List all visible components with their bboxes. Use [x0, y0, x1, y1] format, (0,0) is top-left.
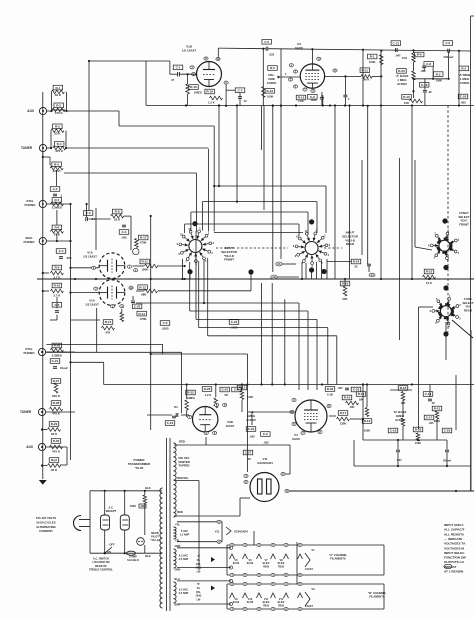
svg-text:C-24: C-24 — [221, 388, 228, 392]
svg-text:AUX: AUX — [27, 109, 35, 113]
svg-text:R-24: R-24 — [353, 260, 360, 264]
wire plate V3 — [325, 75, 361, 77]
svg-text:120K: 120K — [340, 422, 347, 426]
svg-text:A.C. SWITCH: A.C. SWITCH — [93, 557, 109, 561]
svg-text:V1: V1 — [311, 548, 315, 552]
svg-text:BAL: BAL — [196, 563, 201, 566]
wire y290 — [158, 290, 251, 292]
svg-text:C-20: C-20 — [353, 388, 360, 392]
wire main bus y279 — [37, 278, 474, 280]
capacitor C16 .02 — [423, 392, 433, 397]
resistor R10 10K — [402, 95, 412, 100]
resistor R11 160K — [360, 68, 370, 73]
pin 9 V1B — [204, 57, 208, 60]
svg-text:R-16: R-16 — [358, 392, 365, 396]
pin 12 V1B — [216, 57, 220, 60]
svg-text:TREBLE CONTROL: TREBLE CONTROL — [89, 568, 113, 572]
svg-text:220 K: 220 K — [53, 169, 62, 173]
wire right edge bus — [471, 15, 474, 17]
wire below front 4 — [203, 260, 205, 303]
svg-text:7B05: 7B05 — [263, 604, 270, 607]
svg-text:100K: 100K — [141, 268, 148, 272]
svg-text:LOCATED ON: LOCATED ON — [93, 560, 110, 564]
svg-text:R-28: R-28 — [53, 401, 60, 405]
AC receptacle 1 — [101, 515, 110, 530]
svg-text:10: 10 — [244, 99, 248, 103]
wire fil feed 2 — [177, 541, 222, 543]
svg-text:.002: .002 — [460, 101, 466, 105]
svg-text:R-19: R-19 — [206, 90, 213, 94]
wire front wiper left — [157, 265, 185, 267]
capacitor C24 — [220, 387, 230, 392]
AC plug — [74, 516, 82, 531]
jack TUNER (A) — [39, 144, 46, 151]
pot R20 A-BASS pot — [397, 69, 407, 74]
svg-text:C-2: C-2 — [53, 187, 58, 191]
pin 12 V2B — [213, 431, 217, 434]
svg-text:2.5 AMP: 2.5 AMP — [179, 558, 189, 561]
svg-text:R-23: R-23 — [426, 270, 433, 274]
svg-text:7B05: 7B05 — [263, 565, 270, 568]
capacitor C6 200uuf — [443, 41, 453, 46]
svg-text:TUNER: TUNER — [20, 410, 32, 414]
capacitor rear — [367, 263, 371, 265]
rotary switch INPUT SELECTOR FRONT — [189, 240, 202, 253]
svg-text:PHONO: PHONO — [23, 351, 35, 355]
svg-text:R-29: R-29 — [51, 422, 58, 426]
resistor R14 470K — [137, 311, 147, 316]
svg-text:FIL: FIL — [197, 588, 201, 590]
resistor R29 33K — [49, 422, 59, 427]
wire top bus — [218, 47, 265, 50]
pin b V4 — [290, 410, 294, 413]
pot A-TREB 1MEG AUDIO — [459, 66, 469, 71]
svg-text:100K: 100K — [436, 78, 442, 82]
svg-text:R-28: R-28 — [204, 387, 211, 391]
resistor R32 5.1K — [325, 387, 335, 392]
tube V1B 1/2 12AX7 — [197, 62, 222, 87]
wire red bottom — [174, 515, 240, 517]
wire drop x219 — [218, 106, 220, 187]
jack AUX (B) — [38, 443, 45, 450]
resistor R16 1MEG — [189, 85, 199, 90]
capacitor C17 .005 — [424, 415, 434, 420]
svg-text:15 K: 15 K — [426, 281, 432, 285]
svg-text:470 K: 470 K — [52, 412, 61, 416]
wire funct rear drop — [445, 322, 447, 360]
svg-text:470 K: 470 K — [55, 111, 64, 115]
wire xtalB right — [46, 351, 181, 353]
svg-text:AUDIO: AUDIO — [267, 81, 277, 85]
svg-text:R-3: R-3 — [55, 125, 60, 129]
capacitor C3 .01 — [83, 211, 93, 216]
resistor R30 470K — [51, 439, 61, 444]
svg-text:.005: .005 — [337, 386, 343, 390]
svg-text:R-4: R-4 — [57, 142, 62, 146]
resistor R10a 2.7K — [52, 283, 62, 288]
svg-text:RED: RED — [177, 510, 183, 514]
wire stair B4 — [199, 327, 328, 329]
transformer primary — [160, 488, 163, 608]
svg-text:R-20: R-20 — [415, 428, 422, 432]
svg-text:ALL CAPACIT: ALL CAPACIT — [444, 528, 464, 532]
resistor R23 15K — [424, 269, 434, 274]
svg-text:BAL: BAL — [196, 591, 201, 594]
wire drop x272 node — [272, 106, 274, 273]
svg-text:470K: 470K — [140, 317, 147, 321]
heater V11 — [226, 527, 231, 535]
svg-text:6AU6: 6AU6 — [247, 601, 254, 604]
resistor R16b 10K — [342, 395, 352, 400]
svg-text:VOLTAGES M: VOLTAGES M — [444, 546, 464, 550]
svg-text:.047: .047 — [396, 458, 402, 462]
resistor R12a 68K — [138, 285, 148, 290]
big dot rear bus — [321, 269, 326, 274]
wire drop x281 node — [280, 106, 282, 260]
wire stair 3 — [64, 172, 196, 174]
resistor R19b 100K — [362, 419, 372, 424]
pin 3 V1B — [190, 66, 194, 69]
resistor R21 100K — [433, 72, 443, 77]
transformer secondary 5V — [174, 527, 177, 539]
wire V3 loop left — [262, 49, 264, 106]
big dot rear top — [309, 219, 314, 224]
svg-text:FUNCTION SW: FUNCTION SW — [444, 556, 466, 560]
svg-text:R-30: R-30 — [53, 439, 60, 443]
wire drop x284 — [284, 299, 286, 384]
wire drop x237b — [236, 106, 238, 202]
wire bplus bus — [288, 490, 474, 492]
jack XTAL PHONO (A) — [39, 200, 46, 207]
wire drop x349 — [349, 106, 351, 280]
capacitor C18 .047 — [388, 428, 398, 433]
wire BLK bottom — [90, 552, 162, 554]
wire switch link y232 — [214, 232, 303, 234]
svg-text:100K: 100K — [364, 429, 371, 433]
svg-text:--- INDICATE: --- INDICATE — [444, 537, 462, 541]
jack MAG PHONO (A) — [39, 237, 46, 244]
wire drop x261 — [261, 106, 263, 151]
wire drop x362 — [361, 160, 363, 255]
rotary switch INPUT SELECTOR REAR — [305, 242, 318, 255]
svg-text:FRONT: FRONT — [459, 222, 469, 226]
svg-text:*54-90: *54-90 — [135, 466, 144, 470]
svg-text:GZ34/5AR4: GZ34/5AR4 — [234, 530, 248, 534]
wire stair C1 — [46, 343, 162, 345]
svg-text:C-6: C-6 — [445, 41, 450, 45]
svg-text:R-2: R-2 — [270, 66, 275, 70]
big dot rear bottom — [309, 267, 314, 272]
resistor R22 1MEG — [186, 390, 196, 395]
wire cathode bus V1B — [146, 105, 474, 107]
svg-text:2.7 K: 2.7 K — [54, 294, 61, 298]
wire plate V1B up — [217, 48, 219, 57]
wire V2B down — [205, 437, 207, 445]
svg-text:C-6: C-6 — [163, 321, 168, 325]
jack XTAL PHONO (B) — [38, 348, 45, 355]
svg-text:YEL: YEL — [175, 523, 180, 527]
svg-text:CURRENT: CURRENT — [39, 529, 53, 533]
pin 6 V1A — [92, 266, 96, 269]
svg-text:C-8: C-8 — [426, 62, 431, 66]
capacitor C5a — [52, 303, 62, 308]
svg-text:C-23: C-23 — [231, 320, 238, 324]
svg-text:INPUT SELEC: INPUT SELEC — [444, 551, 465, 555]
svg-text:2W: 2W — [141, 504, 145, 508]
wire tone B links — [363, 439, 447, 441]
pot level — [133, 248, 139, 254]
wire below rear 5 — [326, 259, 328, 279]
svg-text:FRONT: FRONT — [224, 258, 234, 262]
svg-text:1.2 K: 1.2 K — [205, 393, 212, 397]
big dot funct mid — [443, 285, 448, 290]
capacitor C8 .002 — [424, 62, 434, 67]
dash link switches — [216, 247, 288, 249]
wire below front 6 — [198, 261, 200, 328]
svg-text:2.5 AMP: 2.5 AMP — [179, 592, 189, 595]
svg-text:REAR: REAR — [346, 242, 355, 246]
resistor R7 2.2MEG — [52, 198, 62, 203]
svg-text:C-7: C-7 — [238, 88, 243, 92]
svg-text:AUDIO: AUDIO — [397, 82, 407, 86]
resistor R2 470K — [54, 103, 64, 108]
capacitor C4b .005 — [119, 230, 129, 235]
svg-text:.002: .002 — [420, 69, 426, 73]
svg-text:R-16: R-16 — [190, 85, 197, 89]
resistor R28 470K — [51, 401, 61, 406]
capacitor C5 .022 — [262, 40, 272, 45]
svg-text:R-11: R-11 — [142, 260, 149, 264]
svg-text:C-2: C-2 — [263, 432, 268, 436]
wire tone mid — [414, 78, 449, 80]
svg-text:7B05: 7B05 — [278, 604, 285, 607]
svg-text:470 K: 470 K — [55, 149, 64, 153]
resistor R19 1.2K — [205, 89, 215, 94]
capacitor C1 grid — [173, 65, 183, 70]
svg-text:5.6K: 5.6K — [298, 99, 304, 103]
svg-text:AUDIO: AUDIO — [460, 81, 470, 85]
neon pilot — [137, 538, 145, 546]
svg-text:GRN: GRN — [175, 568, 181, 572]
svg-text:100K: 100K — [369, 60, 375, 64]
svg-text:C-4: C-4 — [122, 230, 127, 234]
svg-text:C-19: C-19 — [421, 83, 428, 87]
svg-text:10uuf: 10uuf — [60, 366, 68, 370]
svg-text:R-32: R-32 — [327, 387, 334, 391]
svg-text:2 AMP: 2 AMP — [129, 555, 137, 559]
svg-text:C-20: C-20 — [460, 95, 467, 99]
svg-text:C-18: C-18 — [390, 429, 397, 433]
svg-text:C-16: C-16 — [167, 421, 174, 425]
svg-text:1MEG: 1MEG — [187, 396, 195, 400]
V2 heater — [305, 592, 310, 606]
node 2A — [276, 262, 282, 266]
wire red/yel — [174, 480, 199, 482]
transformer core — [166, 438, 168, 611]
svg-text:AT 1 READIN: AT 1 READIN — [444, 570, 464, 574]
svg-text:R-1: R-1 — [55, 86, 60, 90]
svg-text:33 K: 33 K — [51, 468, 58, 472]
pin 7 V3 — [303, 88, 307, 91]
wire stair B1 — [204, 302, 299, 304]
pot R7 VOLUME AUDIO — [268, 66, 278, 71]
svg-text:33 K: 33 K — [51, 432, 58, 436]
wire bplus right — [455, 375, 457, 430]
wire stair 2 — [66, 147, 209, 149]
svg-text:5.1K: 5.1K — [327, 393, 333, 397]
svg-text:100K: 100K — [130, 504, 136, 508]
wire drop x381 — [380, 50, 382, 279]
capacitor C27 — [243, 450, 253, 455]
svg-text:GZ34/5AR4: GZ34/5AR4 — [257, 461, 273, 465]
resistor R12 100K — [262, 87, 266, 98]
svg-text:A.C.: A.C. — [108, 506, 113, 510]
svg-text:R-2: R-2 — [436, 72, 441, 76]
wire below rear 2 — [305, 263, 307, 279]
wire row B top — [227, 583, 384, 585]
svg-text:6.3 VAC: 6.3 VAC — [179, 555, 188, 558]
wire below rear 4 — [321, 261, 323, 279]
svg-text:2A: 2A — [277, 262, 280, 266]
svg-text:ALTERNATING: ALTERNATING — [36, 525, 56, 529]
svg-text:100K: 100K — [247, 395, 253, 399]
svg-text:"A" CHANNEL: "A" CHANNEL — [329, 553, 348, 557]
svg-text:RED: RED — [179, 440, 185, 444]
tube V1A upper 1/2 12AX7 — [99, 253, 125, 279]
pin 3 V1A2 — [94, 287, 98, 290]
node dots top bus — [185, 104, 187, 106]
big dot funct rear bottom — [443, 331, 448, 336]
svg-text:1.2 K: 1.2 K — [208, 101, 215, 105]
wire row A top — [227, 544, 384, 546]
svg-text:1/2 12AX7: 1/2 12AX7 — [85, 302, 99, 306]
wire v4 right — [362, 385, 364, 420]
wire stair B3 — [196, 318, 317, 320]
resistor R28b 1.2K — [202, 387, 212, 392]
capacitor C20 .002 — [458, 94, 468, 99]
svg-text:C-22: C-22 — [134, 305, 141, 309]
svg-text:220 K: 220 K — [52, 394, 61, 398]
wire drop x412 — [411, 106, 413, 280]
wire stair 1 — [67, 110, 120, 112]
wire node drop 2B — [261, 283, 263, 385]
wire AUX top — [89, 60, 146, 62]
svg-text:SLO-BLO: SLO-BLO — [127, 558, 139, 562]
rotary switch FUNCT SELECT REAR — [440, 306, 451, 317]
resistor R16c — [356, 392, 366, 397]
resistor R6 47K — [52, 225, 62, 230]
wire below rear 3 — [316, 262, 318, 279]
wire below front 1 — [182, 259, 184, 279]
svg-text:R-17: R-17 — [340, 411, 347, 415]
svg-text:10K: 10K — [404, 101, 409, 105]
svg-text:VR: VR — [224, 393, 228, 397]
tube V4 6AU6 — [295, 400, 327, 432]
svg-text:C-5: C-5 — [264, 40, 269, 44]
svg-text:RECEPT: RECEPT — [106, 509, 117, 513]
pin 4 V1A — [134, 269, 138, 272]
svg-text:FIL: FIL — [197, 560, 201, 562]
pin 8 V1B — [224, 81, 228, 84]
wire mag to tube — [71, 292, 99, 294]
resistor R9a 2.7K — [52, 265, 62, 270]
wire plate V1A upper — [195, 231, 197, 266]
AC receptacle 2 — [120, 515, 129, 530]
big dot mid bus — [248, 269, 253, 274]
svg-text:C-1: C-1 — [176, 66, 181, 70]
wire stair B2 — [190, 310, 308, 312]
svg-text:.005: .005 — [66, 256, 72, 260]
capacitor C6b .0035 — [160, 321, 170, 326]
pin 4 V11 — [244, 474, 248, 477]
svg-text:PHONO: PHONO — [24, 203, 36, 207]
svg-text:C-27: C-27 — [245, 451, 252, 455]
svg-text:C-13: C-13 — [393, 41, 400, 45]
svg-text:PILOT: PILOT — [151, 534, 159, 538]
svg-text:6AU6: 6AU6 — [292, 437, 300, 441]
svg-text:FILAMENTS: FILAMENTS — [369, 595, 385, 599]
resistor R26 2.2MEG — [52, 343, 62, 348]
svg-text:'B': 'B' — [197, 584, 200, 586]
wire stub x322 — [322, 95, 324, 106]
wire bus x96b — [96, 308, 98, 352]
svg-text:R-16: R-16 — [344, 396, 351, 400]
V1 heater — [305, 553, 310, 567]
svg-text:47K: 47K — [105, 331, 110, 335]
svg-text:6AU6: 6AU6 — [295, 46, 303, 50]
svg-text:10K: 10K — [359, 399, 364, 402]
capacitor C21 — [50, 359, 60, 364]
svg-text:ALL RESISTA: ALL RESISTA — [444, 532, 465, 536]
svg-text:FILAMENTS: FILAMENTS — [330, 557, 346, 561]
svg-text:TAPPED: TAPPED — [178, 464, 189, 468]
capacitor C4 .005 — [56, 249, 66, 254]
capacitor C7b .0035 — [229, 320, 239, 325]
wire below front 2 — [189, 262, 191, 311]
filament pins row B — [230, 582, 234, 585]
big dot funct front bottom — [443, 265, 448, 270]
wire below front 3 — [195, 262, 197, 319]
resistor R24 22 — [351, 259, 361, 264]
svg-text:.022: .022 — [249, 435, 255, 439]
svg-text:D1: D1 — [174, 405, 178, 409]
svg-text:470 K: 470 K — [52, 450, 61, 454]
capacitor C23 .022 — [246, 427, 256, 432]
pin e V4 — [318, 430, 322, 433]
svg-text:1.5 AMP: 1.5 AMP — [180, 534, 190, 537]
capacitor C13 .047 — [391, 41, 401, 46]
pin 9 V3 — [317, 57, 321, 60]
resistor R21b 680K — [432, 406, 442, 411]
big dot front top — [192, 221, 197, 226]
svg-text:INPUT AND F: INPUT AND F — [444, 523, 464, 527]
pin 8 V11 — [285, 489, 289, 492]
jack TUNER (B) — [38, 408, 45, 415]
svg-text:R-6: R-6 — [54, 226, 59, 230]
pin 2 V3t — [293, 70, 297, 73]
wire feed 1 — [214, 185, 326, 187]
filament pins row A — [230, 543, 234, 546]
svg-text:REAR: REAR — [464, 308, 472, 312]
svg-text:*412-12: *412-12 — [150, 538, 160, 542]
capacitor C5b — [131, 300, 135, 302]
svg-text:R-9: R-9 — [417, 53, 422, 57]
wire stair B5 — [208, 335, 337, 337]
svg-text:REAR OF: REAR OF — [95, 564, 107, 568]
pin d V4 — [301, 431, 305, 434]
pin 2 V11 — [281, 472, 285, 475]
wire xtal to grid — [95, 208, 97, 250]
